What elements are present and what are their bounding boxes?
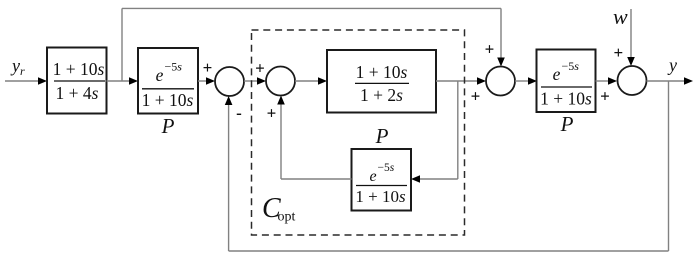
wire into block P3 right side bbox=[419, 178, 458, 180]
wire w drop into sum S4 bbox=[630, 9, 632, 59]
svg-text:+: + bbox=[471, 87, 481, 106]
svg-text:e: e bbox=[156, 65, 164, 85]
wire feedforward drop into sum S3 bbox=[500, 8, 502, 59]
svg-text:1 + 10s: 1 + 10s bbox=[540, 89, 592, 109]
summing junction S4 bbox=[618, 66, 647, 95]
svg-text:1 + 10s: 1 + 10s bbox=[53, 59, 105, 79]
block P2 transfer (1+10s)/(1+2s) bbox=[327, 50, 436, 113]
svg-text:+: + bbox=[203, 58, 213, 77]
svg-text:1 + 10s: 1 + 10s bbox=[356, 62, 408, 82]
wire feedback bottom line bbox=[229, 250, 669, 252]
wire branch up to feedforward line bbox=[121, 8, 123, 81]
wire block P4 to sum S4 bbox=[596, 80, 610, 82]
svg-text:−5s: −5s bbox=[165, 60, 183, 74]
svg-text:+: + bbox=[600, 87, 610, 106]
wire branch down from block P2 output bbox=[457, 81, 459, 179]
svg-text:+: + bbox=[267, 104, 277, 123]
wire block P2 to sum S3 bbox=[436, 80, 478, 82]
svg-text:+: + bbox=[255, 59, 265, 78]
wire input yr to block F bbox=[5, 80, 39, 82]
wire up into sum S2 bottom bbox=[280, 103, 282, 179]
wire block P1 to sum S1 bbox=[198, 80, 207, 82]
svg-text:P: P bbox=[375, 124, 389, 148]
block F1 transfer (1+10s)/(1+4s) bbox=[47, 48, 107, 114]
svg-text:-: - bbox=[236, 104, 242, 123]
wire sum S2 to block P2 bbox=[295, 80, 319, 82]
svg-text:e: e bbox=[369, 168, 376, 185]
svg-text:1 + 2s: 1 + 2s bbox=[360, 85, 403, 105]
svg-text:−5s: −5s bbox=[562, 59, 580, 73]
block P1 transfer e^-5s/(1+10s) bbox=[138, 48, 198, 114]
svg-text:−5s: −5s bbox=[378, 162, 395, 174]
svg-text:yr: yr bbox=[10, 56, 25, 79]
svg-text:P: P bbox=[560, 112, 574, 136]
wire feedback up into sum S1 bottom bbox=[228, 104, 230, 252]
svg-text:1 + 10s: 1 + 10s bbox=[142, 90, 194, 110]
svg-text:+: + bbox=[485, 40, 495, 59]
dashed box C_opt bbox=[252, 30, 465, 235]
block P3 transfer e^-5s/(1+10s) feedback bbox=[352, 149, 412, 211]
summing junction S1 bbox=[215, 67, 244, 96]
wire feedback tap down from output bbox=[668, 81, 670, 251]
svg-text:opt: opt bbox=[278, 210, 296, 225]
svg-text:y: y bbox=[667, 55, 677, 75]
block P4 transfer e^-5s/(1+10s) bbox=[537, 50, 596, 113]
svg-text:1 + 10s: 1 + 10s bbox=[355, 187, 406, 206]
wire block F1 to block P1 bbox=[107, 80, 131, 82]
summing junction S3 bbox=[486, 67, 515, 96]
summing junction S2 bbox=[266, 67, 295, 96]
wire feedforward top line bbox=[122, 7, 501, 9]
svg-text:e: e bbox=[553, 64, 561, 84]
svg-text:P: P bbox=[161, 114, 175, 138]
svg-text:w: w bbox=[613, 4, 628, 29]
wire sum S1 to sum S2 bbox=[244, 80, 258, 82]
wire block P3 left out bbox=[281, 178, 352, 180]
svg-text:1 + 4s: 1 + 4s bbox=[56, 83, 99, 103]
wire output y bbox=[647, 80, 686, 82]
svg-text:+: + bbox=[613, 43, 623, 62]
wire sum S3 to block P4 bbox=[515, 80, 529, 82]
